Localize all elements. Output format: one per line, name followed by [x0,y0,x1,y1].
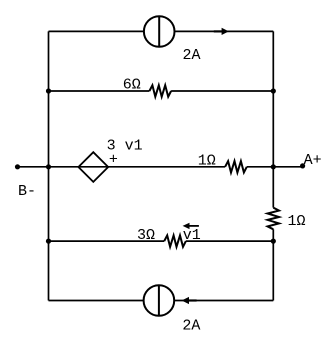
junction: left rail / 3-ohm row [46,239,51,244]
wire middle row B- to A+ [18,166,303,168]
v1 reference arrow (pointing left) [183,223,199,229]
wire row of 3-ohm resistor [49,240,274,242]
svg-text:+: + [109,152,118,169]
wire right rail (lower) [272,229,274,300]
node A+ terminal dot [300,163,305,168]
svg-text:3Ω: 3Ω [137,227,155,244]
wire top rail [49,30,274,32]
dependent source 3v1 (diamond) [78,152,108,182]
node B- terminal dot [15,164,20,169]
junction: left rail / middle row [46,164,51,169]
svg-text:2A: 2A [182,317,200,334]
current source I1 2A (top) [144,16,175,47]
svg-text:2A: 2A [183,47,201,64]
current direction arrow (top wire, pointing right) [214,28,229,35]
junction: right rail / middle row [271,164,276,169]
resistor R 1ohm (right rail, vertical) [268,208,279,230]
wire left rail [48,31,50,300]
svg-text:1Ω: 1Ω [198,152,216,169]
resistor R 1ohm (middle row) [225,161,247,172]
wire bottom rail [49,300,274,302]
svg-text:6Ω: 6Ω [123,77,141,94]
junction: left rail / 6-ohm row [46,88,51,93]
junction: right rail / 3-ohm row [271,239,276,244]
current source I2 2A (bottom) [144,285,175,316]
junction: right rail / 6-ohm row [271,88,276,93]
svg-text:v1: v1 [183,227,201,244]
current direction arrow (bottom wire, pointing left) [182,297,197,304]
resistor R 3ohm [164,235,186,246]
resistor R 6ohm [149,85,171,96]
svg-text:1Ω: 1Ω [288,213,306,230]
svg-text:B-: B- [18,183,36,200]
svg-text:A+: A+ [304,152,322,169]
wire right rail (upper) [272,31,274,207]
wire row of 6-ohm resistor [49,90,274,92]
